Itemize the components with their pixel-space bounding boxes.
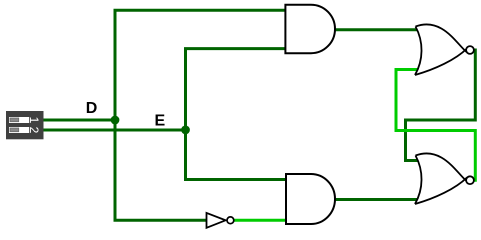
svg-text:E: E	[155, 113, 166, 130]
wire: NOR U4 output feedback to NOR U3 input B	[396, 70, 475, 181]
junction node D	[111, 116, 120, 125]
wire: node D up to AND U1 input A	[115, 10, 288, 120]
NOR gate U3 back arc	[415, 27, 422, 76]
NOR gate U4 top curve	[416, 153, 467, 181]
NOR gate U4 back arc	[415, 156, 422, 205]
DIP switch S1 slot 1	[9, 117, 29, 123]
svg-text:D: D	[86, 100, 98, 117]
NOR gate U3 output bubble	[466, 46, 474, 54]
wire: AND U1 output to NOR U3 input A	[334, 28, 419, 31]
svg-text:2: 2	[27, 127, 41, 134]
NOR gate U4 body fill	[415, 153, 465, 204]
wire: node E up to AND U1 input B	[186, 49, 289, 130]
wire: NOR U3 output feedback to NOR U4 input A	[406, 50, 476, 161]
NOR gate U3 bottom curve	[415, 49, 467, 76]
AND gate U1	[285, 5, 335, 54]
DIP switch S1 body	[6, 111, 44, 139]
NOR gate U3 top curve	[416, 24, 467, 52]
DIP switch S1 slot 2	[9, 127, 29, 133]
NOR gate U4 bottom curve	[415, 178, 467, 205]
NOR gate U3 body fill	[415, 24, 465, 75]
wire: switch pin1 to node D	[44, 119, 116, 122]
NOR gate U4 output bubble	[466, 176, 474, 184]
wire: AND U2 output to NOR U4 input B	[334, 198, 419, 201]
svg-text:1: 1	[27, 117, 41, 124]
junction node E	[181, 125, 190, 134]
NOT gate U5 triangle	[207, 213, 226, 228]
wire: switch pin2 to node E	[44, 129, 186, 132]
wire: node E down to AND U2 input A	[186, 130, 289, 180]
wire: node D down to NOT U5 input	[115, 120, 206, 220]
wire: NOT U5 output to AND U2 input B	[233, 219, 288, 222]
DIP switch S1 slider 1	[10, 118, 19, 122]
NOT gate U5 output bubble	[227, 217, 234, 224]
AND gate U2	[286, 174, 335, 224]
DIP switch S1 slider 2	[10, 128, 19, 132]
